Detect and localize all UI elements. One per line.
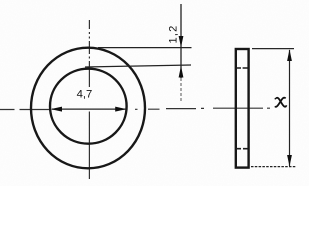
leader line upper (outer circle top) <box>98 47 192 49</box>
horizontal centerline <box>0 108 270 109</box>
outer circle <box>31 48 145 169</box>
arrow down for x <box>287 155 292 167</box>
label x <box>276 98 286 107</box>
scan grain overlay <box>0 0 309 186</box>
arrow down to upper leader <box>179 36 184 47</box>
side view outline rectangle <box>236 49 249 168</box>
dimension line 4,7 <box>52 108 126 110</box>
arrow left of 4,7 <box>51 107 62 112</box>
side view hole bottom edge <box>236 148 249 150</box>
leader line lower (inner circle top) <box>85 65 191 67</box>
dimension line 1,2 vertical <box>180 4 182 78</box>
extension line top for x <box>252 48 294 50</box>
inner circle <box>50 69 127 144</box>
side view hole top edge <box>236 67 249 69</box>
dimension line x vertical <box>289 50 291 166</box>
vertical centerline <box>88 20 90 179</box>
extension line bottom for x <box>251 166 296 168</box>
arrow up for x <box>287 49 292 61</box>
arrow right of 4,7 <box>115 107 126 112</box>
arrow up to lower leader <box>179 66 184 78</box>
